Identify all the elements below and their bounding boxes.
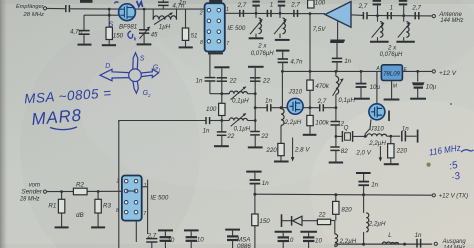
svg-text:2,7: 2,7: [237, 2, 247, 9]
svg-text:22: 22: [318, 211, 326, 218]
resistor 820: [333, 195, 353, 221]
resistor R1: [48, 192, 64, 227]
capacitor 2,7 c: [358, 3, 368, 19]
ground trimmer a2: [275, 39, 290, 41]
capacitor 10 bottom c1: [275, 232, 294, 248]
svg-text:1: 1: [270, 2, 273, 9]
svg-text:10: 10: [197, 236, 204, 243]
capacitor cut above c2: [399, 1, 407, 16]
ground trimmer c1: [370, 41, 389, 43]
capacitor 22 t1: [217, 78, 237, 85]
output wire bottom: [335, 243, 432, 245]
ground t1 lower: [214, 145, 229, 147]
svg-text:7,5V: 7,5V: [313, 26, 327, 33]
photo left edge shadow: [0, 0, 8, 248]
svg-text:10µ: 10µ: [426, 84, 437, 91]
svg-text:D: D: [105, 63, 110, 70]
connector Antenne 144 MHz: [432, 12, 463, 24]
svg-text:1µH: 1µH: [159, 23, 171, 30]
node 7,5V vertical: [309, 12, 327, 71]
handwritten marks above BF981: [114, 1, 142, 7]
svg-text:820: 820: [341, 206, 352, 213]
resistor 220 crystal row: [388, 136, 408, 163]
capacitor 22 t2 lower: [250, 132, 269, 147]
svg-text:10: 10: [286, 237, 293, 244]
op-amp A1: [325, 2, 351, 40]
resistor R3: [95, 192, 112, 227]
capacitor cut above c1: [373, 1, 381, 16]
wire attenuator: [47, 190, 122, 192]
bypass bar Q2: [388, 111, 390, 122]
svg-text:78L09: 78L09: [383, 72, 400, 78]
wire IC U1 pin to 1n: [209, 52, 211, 78]
svg-text:A: A: [375, 66, 380, 72]
trimmer inductor a2: [274, 12, 286, 38]
svg-text:0,1µH: 0,1µH: [338, 97, 355, 104]
svg-text:2: 2: [199, 11, 203, 17]
svg-text:1n: 1n: [196, 77, 203, 84]
svg-text:82: 82: [341, 148, 348, 155]
rail T1: [221, 68, 223, 132]
capacitor 10u right electrolytic: [412, 71, 437, 97]
inductor L output: [382, 232, 399, 244]
ground 220 q1: [274, 161, 289, 163]
svg-text:0,076µH: 0,076µH: [251, 50, 274, 57]
inductor 2,2uH bottom left: [335, 221, 357, 247]
connector +12V TX: [432, 194, 468, 200]
svg-text:2,2µH: 2,2µH: [368, 220, 386, 227]
ground rail 82: [329, 162, 343, 164]
wire Q2 gate down: [365, 119, 371, 136]
capacitor 1n crystal out: [402, 125, 417, 141]
svg-text:1: 1: [390, 4, 393, 11]
ground IC U1: [214, 52, 216, 54]
node stub 150: [108, 9, 110, 27]
antenna filter wire: [367, 15, 432, 17]
svg-text:45: 45: [151, 31, 158, 38]
junction 820: [334, 193, 337, 196]
svg-text:22: 22: [260, 133, 268, 140]
ground 78L09: [384, 99, 400, 101]
svg-text:1: 1: [144, 183, 147, 189]
svg-text:22: 22: [226, 133, 234, 140]
voltage regulator 78L09: [375, 65, 407, 99]
wire U2 pin1 out: [142, 186, 148, 188]
wire W2 from corner: [119, 121, 206, 123]
resistor 150 TX: [252, 194, 271, 248]
ground input cap: [78, 44, 92, 46]
trimmer capacitor 45: [139, 9, 158, 44]
ground R1: [55, 226, 69, 228]
handwritten squiggle right: [461, 150, 473, 152]
handwritten pin letters S D G1 G2: [105, 56, 161, 99]
svg-text:+12 V (TX): +12 V (TX): [439, 194, 469, 200]
wire vertical x118.8: [118, 121, 120, 248]
svg-text:28 MHz: 28 MHz: [19, 196, 39, 202]
svg-text:2,2µH: 2,2µH: [284, 119, 302, 126]
wire node W1: [210, 93, 229, 95]
svg-text:220: 220: [265, 147, 277, 154]
capacitor 10 bottom c2: [300, 232, 322, 248]
label MSA 0886: [237, 237, 251, 248]
capacitor bottom b3: [225, 230, 240, 248]
svg-text:BF981: BF981: [119, 23, 137, 30]
svg-text:51: 51: [191, 32, 198, 39]
transistor J310 Q1: [287, 89, 303, 115]
capacitor 2,7 q1 out: [317, 98, 336, 112]
crystal Q: [342, 125, 365, 142]
capacitor cut above U1: [209, 0, 222, 3]
capacitor 12: [331, 108, 345, 147]
svg-text:vom: vom: [29, 183, 41, 189]
svg-text:2: 2: [147, 93, 151, 98]
wire gate J310 Q1: [255, 107, 267, 109]
svg-text:2,7: 2,7: [290, 2, 300, 9]
IC U1 IE500: [199, 3, 246, 51]
svg-text:0,1µH: 0,1µH: [234, 125, 251, 132]
svg-text:1: 1: [226, 7, 229, 13]
trimmer inductor a1: [250, 12, 262, 38]
svg-text:0,1µH: 0,1µH: [232, 98, 249, 105]
capacitor 82: [330, 147, 348, 162]
svg-text:8: 8: [200, 40, 203, 46]
svg-text:100: 100: [315, 0, 326, 6]
svg-text:Ausgang: Ausgang: [442, 239, 467, 245]
ground trimmer 45: [137, 43, 152, 45]
capacitor 2,7 bottom: [146, 232, 157, 248]
ground trimmer a1: [249, 37, 264, 39]
measurement arrow 2,8V: [291, 138, 311, 162]
paper speck olive: [427, 163, 431, 167]
svg-text:J310: J310: [288, 89, 303, 96]
wire C1 to G1 node: [70, 8, 119, 10]
svg-text:R1: R1: [48, 202, 56, 209]
handwritten G1 below BF981: [128, 31, 135, 40]
IC U2 IE500: [116, 176, 169, 221]
filter bandpass A : wire: [225, 12, 325, 14]
svg-text:1n: 1n: [344, 58, 351, 65]
svg-text:28 MHz: 28 MHz: [22, 12, 44, 18]
svg-text:7: 7: [226, 41, 229, 47]
connector +12V: [432, 70, 457, 77]
wire BF981 drain: [135, 8, 204, 10]
decoupler 1n TX right: [356, 173, 379, 195]
measurement arrow 2,0V: [355, 146, 382, 162]
terminal bar crystal out: [417, 130, 419, 143]
capacitor 4,7n input: [70, 29, 90, 44]
svg-text:4,7n: 4,7n: [290, 58, 303, 65]
svg-text:1n: 1n: [371, 182, 378, 189]
resistor 100: [206, 103, 225, 115]
svg-text:2,7: 2,7: [411, 4, 421, 11]
rail T2: [254, 68, 256, 132]
capacitor + diode branch: [282, 214, 318, 227]
ground trimmer c2: [396, 41, 414, 43]
capacitor 1 c: [388, 4, 393, 19]
svg-text:L: L: [388, 232, 392, 239]
paper speck dark: [450, 103, 452, 105]
trimmer inductor c1: [372, 14, 384, 41]
ground op-amp: [330, 40, 344, 42]
svg-text:22: 22: [262, 78, 270, 85]
resistor 150: [106, 27, 124, 44]
wire Q2 drain to bus: [376, 71, 378, 103]
inductor 0,1uH w1: [222, 87, 255, 105]
svg-text:10: 10: [167, 237, 174, 244]
svg-text:Empfänger: Empfänger: [16, 4, 45, 10]
cut component top left: [80, 0, 93, 3]
capacitor cut above a2: [278, 2, 285, 14]
svg-text:+12 V: +12 V: [439, 71, 457, 77]
wire down to 4,7n input cap: [83, 15, 85, 30]
wire bus to gate node: [281, 71, 283, 107]
connector Empfaenger 28 MHz: [16, 4, 47, 18]
rail T1 ground bar top: [214, 66, 229, 68]
svg-text:2,7: 2,7: [317, 98, 327, 105]
wire crystal row: [336, 135, 342, 137]
paper mottle patches: [20, 30, 200, 248]
svg-text:J310: J310: [369, 126, 384, 133]
wire vertical x147.6: [147, 180, 149, 234]
wire Q1 drain right: [303, 107, 320, 109]
capacitor 22 t1 lower: [217, 132, 235, 146]
wire G2 branch: [84, 14, 120, 16]
ground 10u right: [410, 98, 426, 100]
svg-text:150: 150: [113, 32, 124, 39]
svg-text:1n: 1n: [262, 180, 269, 187]
resistor R2: [73, 181, 87, 194]
capacitor 2,7 d: [411, 4, 421, 19]
capacitor 1n below U1: [196, 77, 216, 93]
transistor J310 Q2: [369, 104, 385, 133]
wire amp input: [351, 14, 363, 17]
inductor 2,2uH crystal row: [365, 134, 400, 147]
ground 10u left: [354, 98, 370, 100]
svg-text:2,7: 2,7: [358, 3, 368, 10]
TX supply wire: [255, 194, 432, 195]
capacitor 2,7 a: [237, 2, 247, 17]
rail T2 ground bar top: [248, 66, 264, 68]
resistor 22 bottom: [317, 211, 334, 224]
decoupler 1n TX left: [246, 172, 269, 195]
svg-text:10µ: 10µ: [370, 84, 381, 91]
svg-text:Q: Q: [344, 125, 349, 132]
capacitor 1n output: [415, 232, 422, 248]
svg-text:144 MHz: 144 MHz: [440, 18, 463, 24]
trimmer inductor c2: [398, 14, 410, 41]
svg-text:220: 220: [396, 148, 408, 155]
inductor 2,2uH TX vertical: [364, 195, 386, 245]
svg-text:7: 7: [143, 211, 146, 217]
resistor 51: [182, 9, 197, 47]
resistor 100k: [307, 108, 330, 134]
ground 51: [179, 46, 193, 48]
connector Ausgang 144 MHz: [434, 239, 466, 248]
svg-text:1n: 1n: [203, 127, 210, 134]
capacitor 10u left: [356, 71, 381, 97]
capacitor 10 bottom b2: [184, 230, 204, 248]
svg-text:2,8 V: 2,8 V: [294, 147, 310, 154]
label 2x 0,076uH filter C: [380, 44, 403, 58]
svg-text:IE 500: IE 500: [150, 195, 168, 202]
supply bus 9V: [282, 70, 381, 72]
inductor 1uH: [153, 9, 176, 30]
svg-text:100: 100: [206, 106, 217, 113]
resistor cut top 100: [308, 0, 326, 8]
svg-text:22: 22: [229, 78, 237, 85]
resistor 470k: [307, 71, 330, 107]
svg-text:IE 500: IE 500: [227, 25, 245, 32]
inductor 2,2uH q1: [281, 109, 302, 144]
svg-text:1n: 1n: [179, 0, 186, 7]
inductor 0,1uH vertical: [333, 71, 356, 107]
wire 78L09 to +12V: [402, 70, 432, 72]
connector vom Sender 28 MHz: [19, 183, 47, 203]
capacitor 1n gate: [265, 98, 287, 112]
svg-text:Antenne: Antenne: [438, 12, 462, 18]
svg-text:10: 10: [315, 237, 322, 244]
svg-text:2,2µH: 2,2µH: [368, 140, 386, 147]
resistor 220 q1: [265, 143, 284, 160]
svg-text:100k: 100k: [315, 120, 329, 127]
svg-text:S: S: [140, 56, 145, 63]
svg-text:dB: dB: [76, 212, 84, 219]
svg-text:S: S: [108, 20, 113, 29]
inductor 0,1uH w2: [222, 113, 255, 132]
svg-text:R2: R2: [76, 181, 84, 188]
ground t2 lower: [248, 146, 263, 148]
transistor BF981: [119, 4, 138, 31]
capacitor 10 bottom b1: [158, 230, 175, 248]
svg-text:1n: 1n: [265, 98, 272, 105]
svg-text:Sender: Sender: [21, 189, 43, 195]
handwritten MOSFET sketch: [100, 53, 159, 93]
svg-text:150: 150: [259, 218, 270, 225]
capacitor 1n bus: [330, 42, 351, 71]
capacitor 2,7 b: [290, 2, 300, 17]
wire input to C1: [47, 7, 65, 9]
capacitor 4,7n top: [158, 0, 185, 9]
svg-text:0,076µH: 0,076µH: [380, 51, 403, 58]
capacitor 1n w2: [203, 117, 222, 134]
capacitor cut above a1: [252, 2, 259, 14]
svg-text:0886: 0886: [237, 243, 251, 248]
capacitor 4,7n bus: [276, 51, 303, 72]
svg-text:R3: R3: [103, 202, 111, 209]
ground R3: [91, 226, 105, 228]
ground 100k: [303, 134, 317, 136]
svg-text:2,0 V: 2,0 V: [355, 150, 371, 157]
svg-text:470k: 470k: [315, 83, 329, 90]
svg-text:1n: 1n: [415, 232, 422, 239]
capacitor series input: [66, 5, 70, 12]
capacitor 1 a: [267, 2, 273, 17]
svg-text:2 x: 2 x: [257, 43, 267, 50]
ground 150: [102, 44, 116, 46]
svg-text:1: 1: [158, 68, 161, 73]
ground 220 crystal row: [384, 163, 399, 165]
label 2x 0,076uH filter A: [251, 43, 274, 57]
capacitor 22 t2: [250, 78, 270, 85]
wire vertical x136.3: [135, 221, 137, 242]
